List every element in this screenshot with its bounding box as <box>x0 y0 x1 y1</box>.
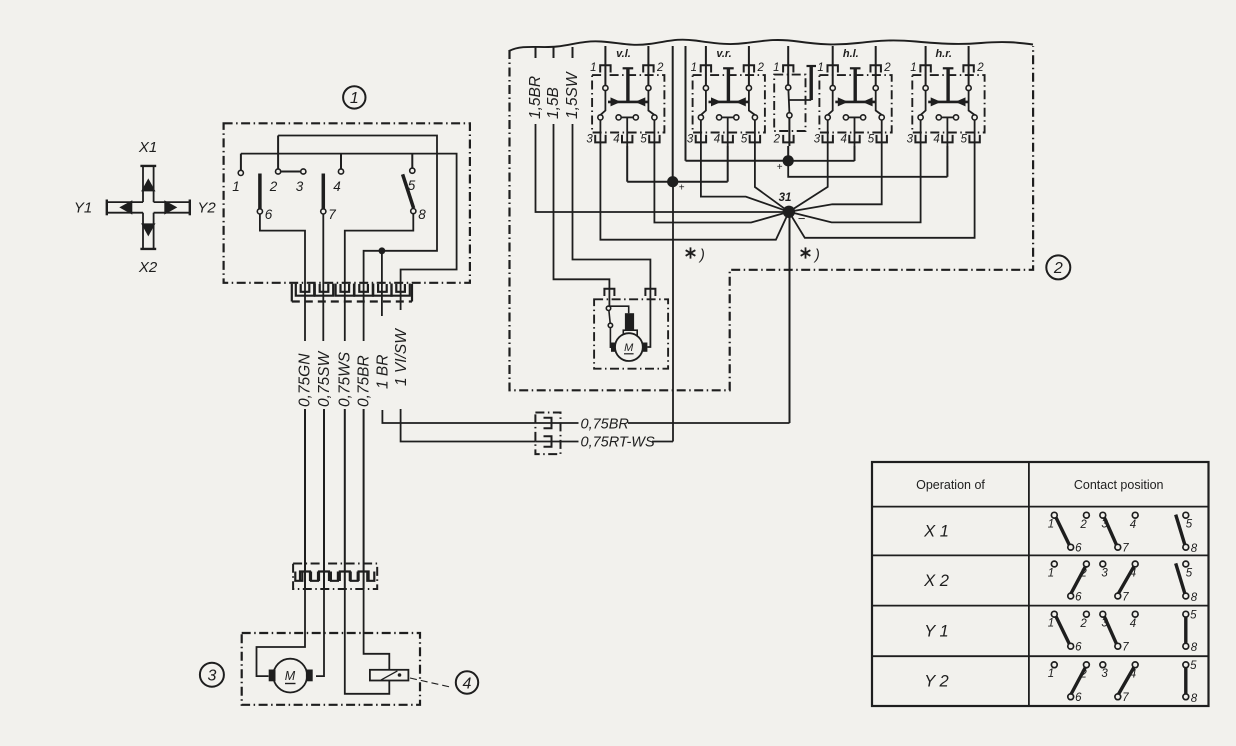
svg-text:1: 1 <box>232 179 240 194</box>
svg-text:Y2: Y2 <box>197 200 216 217</box>
svg-text:M: M <box>624 342 634 354</box>
svg-text:4: 4 <box>1130 618 1136 630</box>
svg-text:3: 3 <box>814 134 821 146</box>
svg-text:3: 3 <box>1101 567 1108 579</box>
svg-text:1,5BR: 1,5BR <box>527 76 544 119</box>
svg-text:5: 5 <box>1186 519 1193 531</box>
svg-text:3: 3 <box>586 134 593 146</box>
svg-text:8: 8 <box>1191 642 1198 654</box>
svg-text:): ) <box>813 248 820 264</box>
svg-text:Y 2: Y 2 <box>924 673 948 691</box>
svg-text:0,75BR: 0,75BR <box>356 355 373 407</box>
svg-text:5: 5 <box>1186 567 1193 579</box>
svg-text:1: 1 <box>590 62 596 74</box>
svg-text:1,5SW: 1,5SW <box>564 71 581 119</box>
svg-text:3: 3 <box>296 179 304 194</box>
svg-text:2: 2 <box>1079 618 1087 630</box>
svg-text:2: 2 <box>656 62 664 74</box>
svg-text:1,5B: 1,5B <box>545 87 562 119</box>
svg-text:4: 4 <box>333 179 341 194</box>
svg-text:7: 7 <box>328 207 336 222</box>
svg-text:2: 2 <box>773 134 781 146</box>
svg-text:6: 6 <box>1075 642 1082 654</box>
svg-text:4: 4 <box>1130 519 1136 531</box>
svg-text:h.r.: h.r. <box>935 48 952 60</box>
svg-text:3: 3 <box>907 134 914 146</box>
svg-text:4: 4 <box>1130 568 1136 580</box>
svg-text:X 2: X 2 <box>923 572 949 590</box>
svg-text:4: 4 <box>933 134 939 146</box>
svg-text:3: 3 <box>1101 618 1108 630</box>
svg-text:2: 2 <box>1079 669 1087 681</box>
svg-text:+: + <box>777 162 783 173</box>
svg-text:0,75GN: 0,75GN <box>297 353 314 407</box>
svg-text:X 1: X 1 <box>923 523 949 541</box>
svg-text:3: 3 <box>687 134 694 146</box>
svg-text:1: 1 <box>350 90 359 107</box>
svg-text:3: 3 <box>207 667 216 684</box>
svg-text:0,75BR: 0,75BR <box>581 417 630 433</box>
svg-text:1 VI/SW: 1 VI/SW <box>393 328 410 386</box>
svg-text:4: 4 <box>463 675 472 692</box>
svg-text:Y 1: Y 1 <box>924 622 948 640</box>
svg-text:1: 1 <box>1048 618 1054 630</box>
svg-text:8: 8 <box>1191 543 1198 555</box>
svg-text:v.r.: v.r. <box>716 48 731 60</box>
svg-text:2: 2 <box>883 62 891 74</box>
svg-text:5: 5 <box>868 134 875 146</box>
svg-text:2: 2 <box>757 62 765 74</box>
svg-text:1: 1 <box>1048 668 1054 680</box>
svg-text:5: 5 <box>408 178 416 193</box>
svg-text:8: 8 <box>418 207 426 222</box>
svg-text:): ) <box>698 248 705 264</box>
svg-text:7: 7 <box>1122 591 1129 603</box>
svg-text:1 BR: 1 BR <box>374 355 391 389</box>
svg-text:h.l.: h.l. <box>843 48 859 60</box>
svg-text:6: 6 <box>1075 591 1082 603</box>
svg-text:4: 4 <box>714 134 720 146</box>
svg-text:1: 1 <box>817 62 823 74</box>
svg-text:5: 5 <box>741 134 748 146</box>
svg-text:Contact position: Contact position <box>1074 478 1164 492</box>
svg-text:1: 1 <box>691 62 697 74</box>
svg-text:8: 8 <box>1191 592 1198 604</box>
svg-text:6: 6 <box>265 207 273 222</box>
svg-text:3: 3 <box>1101 519 1108 531</box>
svg-text:2: 2 <box>1079 568 1087 580</box>
svg-text:2: 2 <box>1079 519 1087 531</box>
svg-text:−: − <box>798 211 806 226</box>
svg-text:3: 3 <box>1101 668 1108 680</box>
svg-text:X1: X1 <box>138 139 157 156</box>
svg-text:5: 5 <box>640 134 647 146</box>
svg-text:1: 1 <box>1048 519 1054 531</box>
svg-text:7: 7 <box>1122 692 1129 704</box>
svg-text:1: 1 <box>910 62 916 74</box>
svg-text:6: 6 <box>1075 543 1082 555</box>
svg-text:4: 4 <box>613 134 619 146</box>
svg-text:5: 5 <box>961 134 968 146</box>
svg-text:1: 1 <box>1048 567 1054 579</box>
svg-text:2: 2 <box>269 179 278 194</box>
svg-text:4: 4 <box>840 134 846 146</box>
svg-text:M: M <box>285 669 296 683</box>
svg-text:v.l.: v.l. <box>616 48 631 60</box>
svg-text:0,75WS: 0,75WS <box>336 351 353 407</box>
svg-text:4: 4 <box>1130 669 1136 681</box>
svg-text:5: 5 <box>1190 660 1197 672</box>
svg-text:+: + <box>679 183 685 194</box>
svg-text:2: 2 <box>1053 260 1063 277</box>
svg-text:8: 8 <box>1191 693 1198 705</box>
svg-text:5: 5 <box>1190 610 1197 622</box>
svg-text:Y1: Y1 <box>74 200 92 217</box>
svg-text:6: 6 <box>1075 692 1082 704</box>
svg-text:7: 7 <box>1122 642 1129 654</box>
svg-text:1: 1 <box>773 62 779 74</box>
svg-text:0,75SW: 0,75SW <box>316 350 333 407</box>
svg-text:31: 31 <box>779 192 792 204</box>
svg-text:0,75RT-WS: 0,75RT-WS <box>581 435 655 451</box>
svg-text:Operation of: Operation of <box>916 478 985 492</box>
svg-text:X2: X2 <box>138 259 158 276</box>
svg-text:2: 2 <box>976 62 984 74</box>
svg-text:7: 7 <box>1122 543 1129 555</box>
